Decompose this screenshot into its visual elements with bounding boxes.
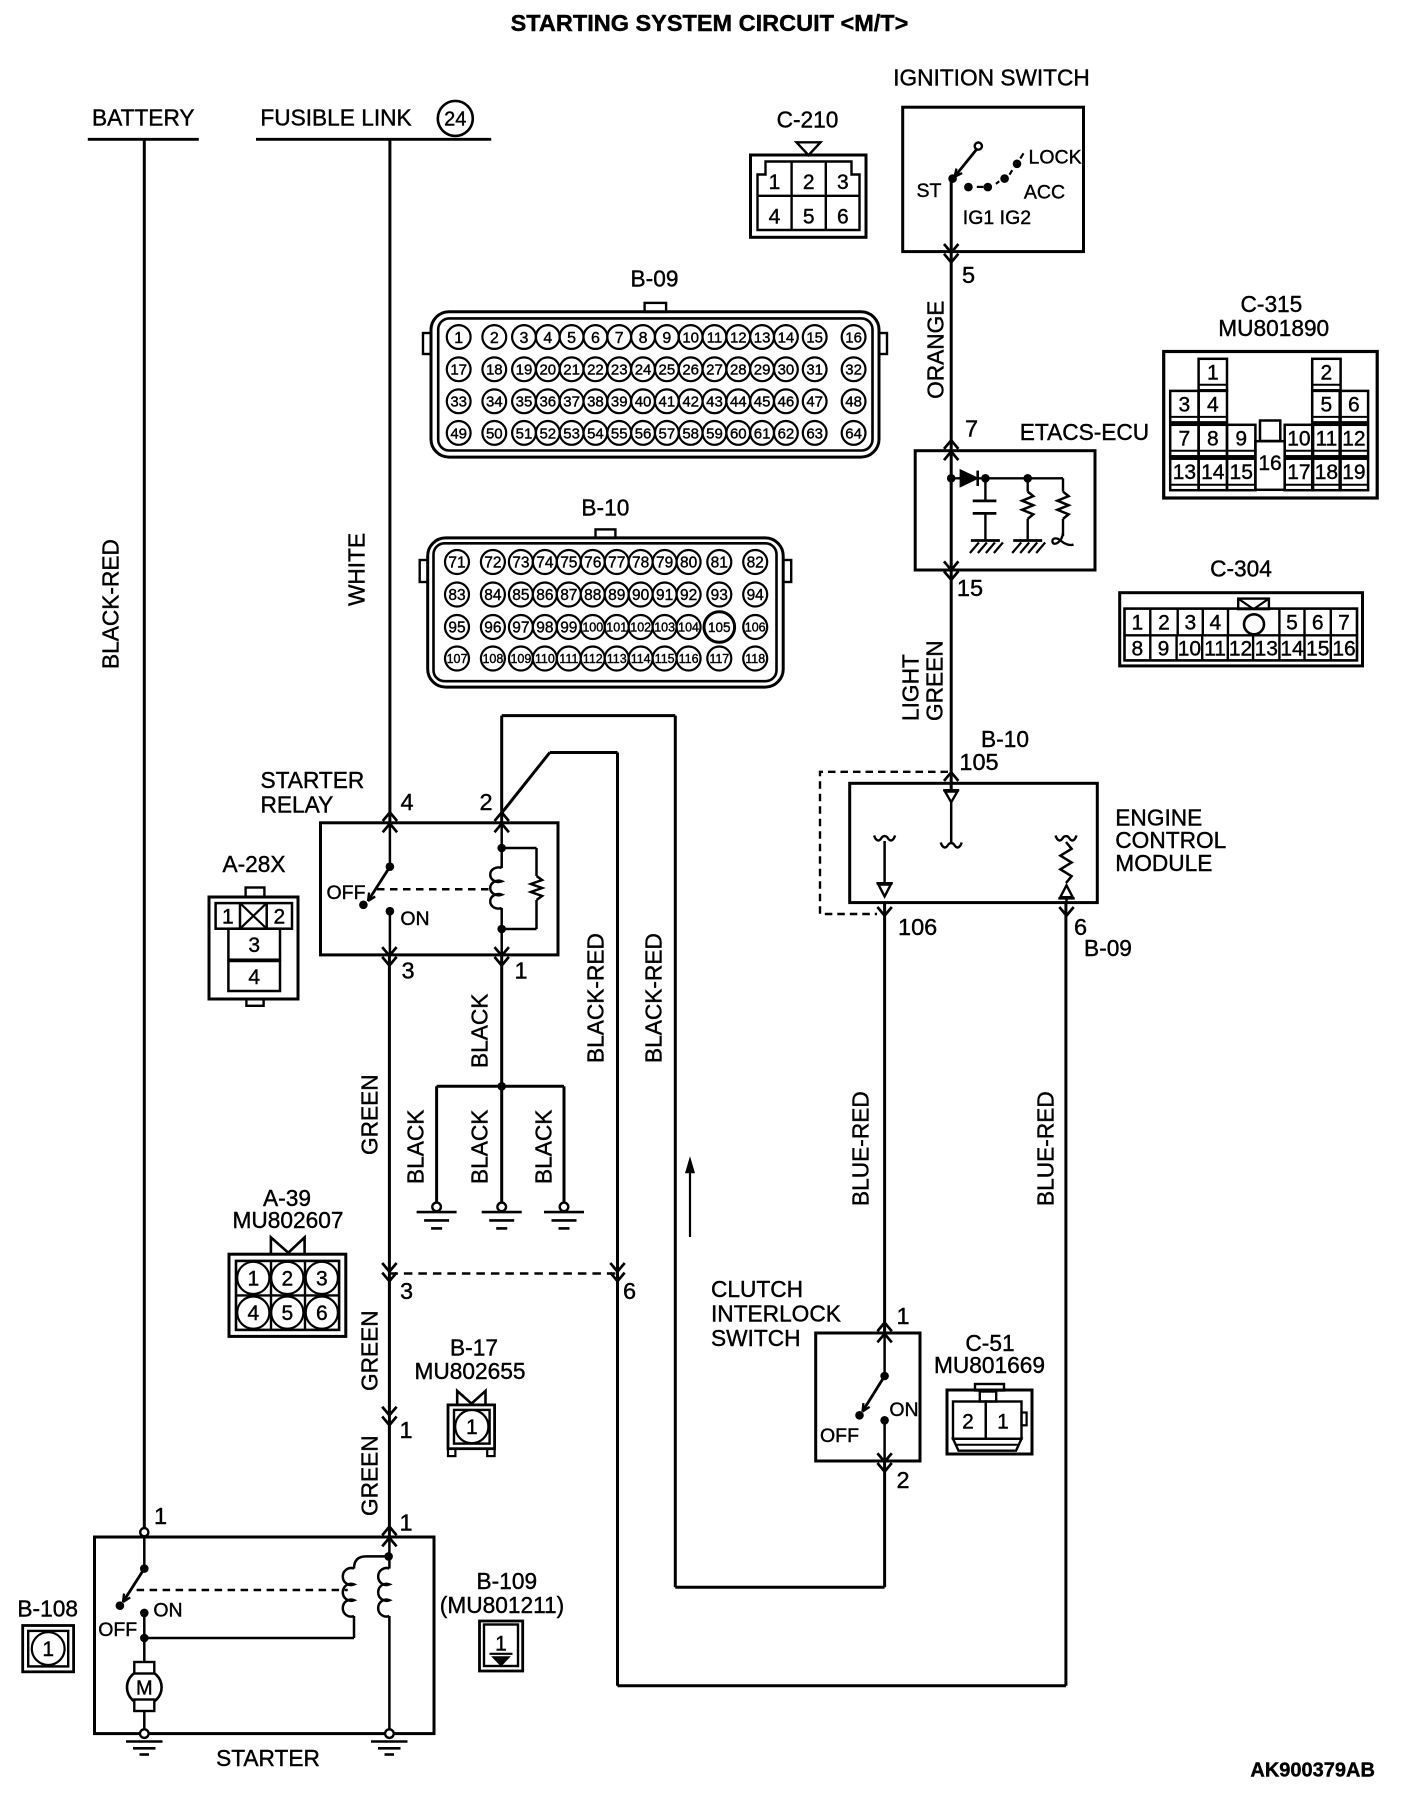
svg-text:1: 1 <box>247 1267 259 1290</box>
svg-text:31: 31 <box>806 362 823 379</box>
svg-text:13: 13 <box>1173 461 1196 484</box>
svg-text:101: 101 <box>606 621 627 635</box>
svg-text:80: 80 <box>680 555 698 572</box>
svg-text:93: 93 <box>711 587 728 604</box>
svg-text:4: 4 <box>248 966 260 989</box>
svg-text:3: 3 <box>400 1278 413 1304</box>
svg-text:WHITE: WHITE <box>344 533 370 606</box>
svg-text:87: 87 <box>560 587 577 604</box>
svg-text:2: 2 <box>479 789 492 815</box>
svg-text:49: 49 <box>450 425 467 442</box>
svg-text:27: 27 <box>706 362 723 379</box>
svg-text:24: 24 <box>444 109 466 131</box>
svg-text:BLACK: BLACK <box>403 1110 429 1184</box>
svg-text:32: 32 <box>845 362 862 379</box>
svg-text:46: 46 <box>778 394 795 411</box>
svg-text:9: 9 <box>1158 638 1170 661</box>
svg-text:118: 118 <box>745 652 765 666</box>
svg-text:MU801669: MU801669 <box>934 1352 1045 1378</box>
svg-text:SWITCH: SWITCH <box>711 1325 800 1351</box>
svg-text:52: 52 <box>539 425 556 442</box>
svg-text:114: 114 <box>631 652 651 666</box>
svg-text:1: 1 <box>1132 612 1144 635</box>
svg-text:2: 2 <box>1321 361 1333 384</box>
svg-text:48: 48 <box>845 394 862 411</box>
svg-text:7: 7 <box>965 416 978 442</box>
svg-text:B-109: B-109 <box>477 1568 538 1594</box>
svg-text:104: 104 <box>678 621 699 635</box>
svg-text:15: 15 <box>957 575 983 601</box>
svg-text:3: 3 <box>1184 612 1196 635</box>
svg-text:38: 38 <box>587 394 604 411</box>
svg-text:73: 73 <box>512 555 529 572</box>
svg-text:ACC: ACC <box>1024 181 1065 203</box>
svg-text:6: 6 <box>316 1302 328 1325</box>
svg-text:ON: ON <box>153 1600 182 1622</box>
svg-text:4: 4 <box>543 330 552 347</box>
svg-text:15: 15 <box>1306 638 1329 661</box>
svg-text:6: 6 <box>591 330 600 347</box>
svg-text:3: 3 <box>316 1267 328 1290</box>
svg-text:IGNITION SWITCH: IGNITION SWITCH <box>893 65 1090 91</box>
svg-text:4: 4 <box>247 1302 259 1325</box>
svg-text:3: 3 <box>1179 393 1191 416</box>
svg-text:105: 105 <box>959 749 998 775</box>
svg-text:76: 76 <box>584 555 601 572</box>
svg-text:72: 72 <box>484 555 501 572</box>
svg-text:1: 1 <box>454 330 463 347</box>
svg-text:BLACK: BLACK <box>467 994 493 1068</box>
svg-text:B-10: B-10 <box>581 494 629 520</box>
svg-text:92: 92 <box>680 587 697 604</box>
svg-text:11: 11 <box>1204 638 1226 661</box>
svg-text:115: 115 <box>655 652 675 666</box>
svg-text:107: 107 <box>447 652 468 666</box>
svg-text:7: 7 <box>1338 612 1350 635</box>
svg-text:21: 21 <box>563 362 580 379</box>
svg-text:45: 45 <box>754 394 771 411</box>
svg-text:1: 1 <box>222 906 234 929</box>
svg-text:28: 28 <box>730 362 747 379</box>
svg-text:GREEN: GREEN <box>357 1310 383 1391</box>
svg-text:3: 3 <box>837 171 849 194</box>
svg-text:5: 5 <box>1286 612 1298 635</box>
svg-text:64: 64 <box>845 425 862 442</box>
svg-text:106: 106 <box>745 621 766 635</box>
svg-text:4: 4 <box>1210 612 1222 635</box>
svg-text:113: 113 <box>607 652 627 666</box>
svg-text:B-108: B-108 <box>17 1595 78 1621</box>
svg-text:1: 1 <box>42 1638 54 1661</box>
svg-text:39: 39 <box>611 394 628 411</box>
svg-text:6: 6 <box>623 1278 636 1304</box>
svg-text:42: 42 <box>682 394 699 411</box>
svg-text:11: 11 <box>1315 427 1337 450</box>
svg-text:1: 1 <box>769 171 781 194</box>
svg-text:3: 3 <box>248 934 260 957</box>
svg-text:ON: ON <box>400 908 429 930</box>
svg-text:3: 3 <box>401 958 414 984</box>
svg-text:17: 17 <box>1287 461 1310 484</box>
svg-text:12: 12 <box>1229 638 1252 661</box>
svg-text:8: 8 <box>1207 427 1219 450</box>
svg-text:C-210: C-210 <box>777 107 839 133</box>
svg-text:OFF: OFF <box>327 882 366 904</box>
svg-text:6: 6 <box>1312 612 1324 635</box>
svg-text:88: 88 <box>584 587 601 604</box>
svg-text:23: 23 <box>611 362 628 379</box>
svg-text:8: 8 <box>1132 638 1144 661</box>
svg-text:RELAY: RELAY <box>261 792 334 818</box>
svg-text:5: 5 <box>962 262 975 288</box>
svg-text:1: 1 <box>495 1633 507 1656</box>
svg-text:ON: ON <box>889 1399 918 1421</box>
svg-text:B-09: B-09 <box>631 265 679 291</box>
svg-text:BLACK: BLACK <box>531 1110 557 1184</box>
svg-text:82: 82 <box>747 555 764 572</box>
svg-text:108: 108 <box>482 652 503 666</box>
svg-text:77: 77 <box>608 555 625 572</box>
svg-text:16: 16 <box>1258 452 1281 475</box>
svg-text:78: 78 <box>632 555 649 572</box>
svg-text:AK900379AB: AK900379AB <box>1250 1760 1375 1782</box>
svg-text:BLACK-RED: BLACK-RED <box>641 933 667 1063</box>
svg-text:B-09: B-09 <box>1084 935 1132 961</box>
svg-text:112: 112 <box>583 652 603 666</box>
svg-text:7: 7 <box>615 330 624 347</box>
svg-text:MODULE: MODULE <box>1115 850 1212 876</box>
svg-text:9: 9 <box>1235 427 1247 450</box>
svg-text:106: 106 <box>898 914 937 940</box>
svg-text:12: 12 <box>1342 427 1365 450</box>
svg-text:86: 86 <box>536 587 553 604</box>
svg-text:2: 2 <box>803 171 815 194</box>
svg-text:90: 90 <box>632 587 650 604</box>
svg-text:BLUE-RED: BLUE-RED <box>1033 1091 1059 1206</box>
svg-text:5: 5 <box>567 330 576 347</box>
svg-text:54: 54 <box>587 425 604 442</box>
svg-text:17: 17 <box>450 362 467 379</box>
svg-text:STARTING SYSTEM CIRCUIT <M/T>: STARTING SYSTEM CIRCUIT <M/T> <box>511 10 909 36</box>
svg-text:71: 71 <box>448 555 465 572</box>
svg-text:11: 11 <box>707 329 723 346</box>
svg-text:INTERLOCK: INTERLOCK <box>711 1301 841 1327</box>
svg-text:2: 2 <box>281 1267 293 1290</box>
svg-text:59: 59 <box>706 425 723 442</box>
svg-text:18: 18 <box>486 362 503 379</box>
svg-text:C-315: C-315 <box>1241 291 1303 317</box>
svg-text:BATTERY: BATTERY <box>92 105 195 131</box>
svg-text:4: 4 <box>1207 393 1219 416</box>
svg-text:85: 85 <box>512 587 529 604</box>
svg-text:15: 15 <box>806 329 823 346</box>
svg-text:A-28X: A-28X <box>222 851 285 877</box>
svg-text:61: 61 <box>754 425 771 442</box>
svg-text:19: 19 <box>1342 461 1365 484</box>
svg-text:75: 75 <box>560 555 577 572</box>
svg-text:36: 36 <box>539 394 556 411</box>
svg-text:5: 5 <box>1321 393 1333 416</box>
svg-text:105: 105 <box>708 620 731 635</box>
svg-text:53: 53 <box>563 425 580 442</box>
svg-text:22: 22 <box>587 362 604 379</box>
svg-text:60: 60 <box>730 425 747 442</box>
svg-text:2: 2 <box>1158 612 1170 635</box>
svg-text:94: 94 <box>747 587 765 604</box>
svg-text:44: 44 <box>730 394 747 411</box>
svg-text:STARTER: STARTER <box>216 1745 320 1771</box>
svg-text:30: 30 <box>778 362 795 379</box>
svg-text:41: 41 <box>659 394 676 411</box>
svg-text:IG1 IG2: IG1 IG2 <box>963 207 1031 229</box>
svg-text:29: 29 <box>754 362 771 379</box>
svg-text:STARTER: STARTER <box>261 767 365 793</box>
svg-text:5: 5 <box>803 206 815 229</box>
svg-text:37: 37 <box>563 394 580 411</box>
svg-text:25: 25 <box>659 362 676 379</box>
svg-text:24: 24 <box>635 362 652 379</box>
svg-text:16: 16 <box>845 329 862 346</box>
svg-text:MU802655: MU802655 <box>415 1358 526 1384</box>
svg-text:16: 16 <box>1332 638 1355 661</box>
svg-text:8: 8 <box>639 330 648 347</box>
svg-text:(MU801211): (MU801211) <box>440 1592 564 1618</box>
svg-text:MU801890: MU801890 <box>1218 315 1329 341</box>
svg-text:4: 4 <box>769 206 781 229</box>
svg-text:OFF: OFF <box>98 1619 137 1641</box>
svg-text:103: 103 <box>654 621 675 635</box>
svg-text:2: 2 <box>896 1467 909 1493</box>
svg-text:18: 18 <box>1315 461 1338 484</box>
svg-text:50: 50 <box>486 425 503 442</box>
svg-text:BLACK-RED: BLACK-RED <box>583 933 609 1063</box>
svg-text:CLUTCH: CLUTCH <box>711 1276 803 1302</box>
svg-text:B-17: B-17 <box>450 1335 498 1361</box>
svg-text:96: 96 <box>484 620 501 637</box>
svg-text:LOCK: LOCK <box>1029 147 1082 169</box>
svg-text:BLUE-RED: BLUE-RED <box>848 1091 874 1206</box>
svg-text:117: 117 <box>709 652 729 666</box>
svg-text:97: 97 <box>512 620 529 637</box>
svg-text:111: 111 <box>559 652 578 666</box>
svg-text:99: 99 <box>560 620 577 637</box>
svg-text:10: 10 <box>682 329 699 346</box>
svg-text:GREEN: GREEN <box>357 1435 383 1516</box>
svg-text:35: 35 <box>516 394 533 411</box>
svg-text:1: 1 <box>896 1303 909 1329</box>
svg-text:BLACK-RED: BLACK-RED <box>98 539 124 669</box>
svg-text:M: M <box>136 1678 153 1700</box>
svg-text:1: 1 <box>997 1411 1009 1434</box>
svg-text:GREEN: GREEN <box>357 1074 383 1155</box>
svg-text:14: 14 <box>778 329 795 346</box>
svg-text:13: 13 <box>754 329 771 346</box>
svg-text:1: 1 <box>154 1503 167 1529</box>
svg-text:51: 51 <box>516 425 533 442</box>
svg-text:58: 58 <box>682 425 699 442</box>
svg-text:2: 2 <box>274 906 286 929</box>
svg-text:14: 14 <box>1201 461 1225 484</box>
svg-text:102: 102 <box>630 621 651 635</box>
svg-text:62: 62 <box>778 425 795 442</box>
svg-text:19: 19 <box>516 362 533 379</box>
svg-text:15: 15 <box>1230 461 1253 484</box>
svg-text:84: 84 <box>484 587 502 604</box>
svg-text:1: 1 <box>466 1416 478 1439</box>
svg-text:33: 33 <box>450 394 467 411</box>
svg-text:83: 83 <box>448 587 465 604</box>
svg-text:BLACK: BLACK <box>467 1110 493 1184</box>
svg-text:110: 110 <box>535 652 555 666</box>
svg-text:63: 63 <box>806 425 823 442</box>
svg-text:2: 2 <box>490 330 499 347</box>
svg-text:74: 74 <box>536 555 554 572</box>
svg-text:10: 10 <box>1287 427 1310 450</box>
svg-text:C-304: C-304 <box>1210 555 1272 581</box>
svg-text:1: 1 <box>399 1510 412 1536</box>
svg-text:6: 6 <box>1348 393 1360 416</box>
svg-text:34: 34 <box>486 394 503 411</box>
svg-text:100: 100 <box>582 621 603 635</box>
svg-text:OFF: OFF <box>820 1425 859 1447</box>
svg-text:1: 1 <box>399 1417 412 1443</box>
svg-text:40: 40 <box>635 394 652 411</box>
svg-text:6: 6 <box>837 206 849 229</box>
svg-text:56: 56 <box>635 425 652 442</box>
svg-text:4: 4 <box>400 789 413 815</box>
svg-text:7: 7 <box>1179 427 1191 450</box>
svg-text:9: 9 <box>662 330 671 347</box>
svg-text:FUSIBLE LINK: FUSIBLE LINK <box>260 105 411 131</box>
svg-text:26: 26 <box>682 362 699 379</box>
svg-text:ST: ST <box>917 180 942 202</box>
svg-text:98: 98 <box>536 620 553 637</box>
svg-text:91: 91 <box>656 587 673 604</box>
svg-text:13: 13 <box>1255 638 1278 661</box>
svg-text:47: 47 <box>806 394 823 411</box>
svg-text:95: 95 <box>448 620 465 637</box>
svg-text:89: 89 <box>608 587 625 604</box>
svg-text:43: 43 <box>706 394 723 411</box>
svg-text:109: 109 <box>510 652 531 666</box>
svg-text:81: 81 <box>711 555 728 572</box>
svg-text:2: 2 <box>962 1411 974 1434</box>
svg-text:1: 1 <box>1207 361 1219 384</box>
svg-text:5: 5 <box>281 1302 293 1325</box>
svg-text:MU802607: MU802607 <box>233 1207 344 1233</box>
svg-text:55: 55 <box>611 425 628 442</box>
svg-text:116: 116 <box>679 652 699 666</box>
svg-text:ORANGE: ORANGE <box>923 301 949 399</box>
svg-text:10: 10 <box>1178 638 1201 661</box>
svg-text:1: 1 <box>514 958 527 984</box>
svg-text:79: 79 <box>656 555 673 572</box>
svg-text:3: 3 <box>520 330 529 347</box>
svg-text:20: 20 <box>539 362 556 379</box>
svg-text:14: 14 <box>1280 638 1304 661</box>
svg-text:57: 57 <box>659 425 676 442</box>
svg-text:ETACS-ECU: ETACS-ECU <box>1020 419 1149 445</box>
svg-text:12: 12 <box>730 329 747 346</box>
